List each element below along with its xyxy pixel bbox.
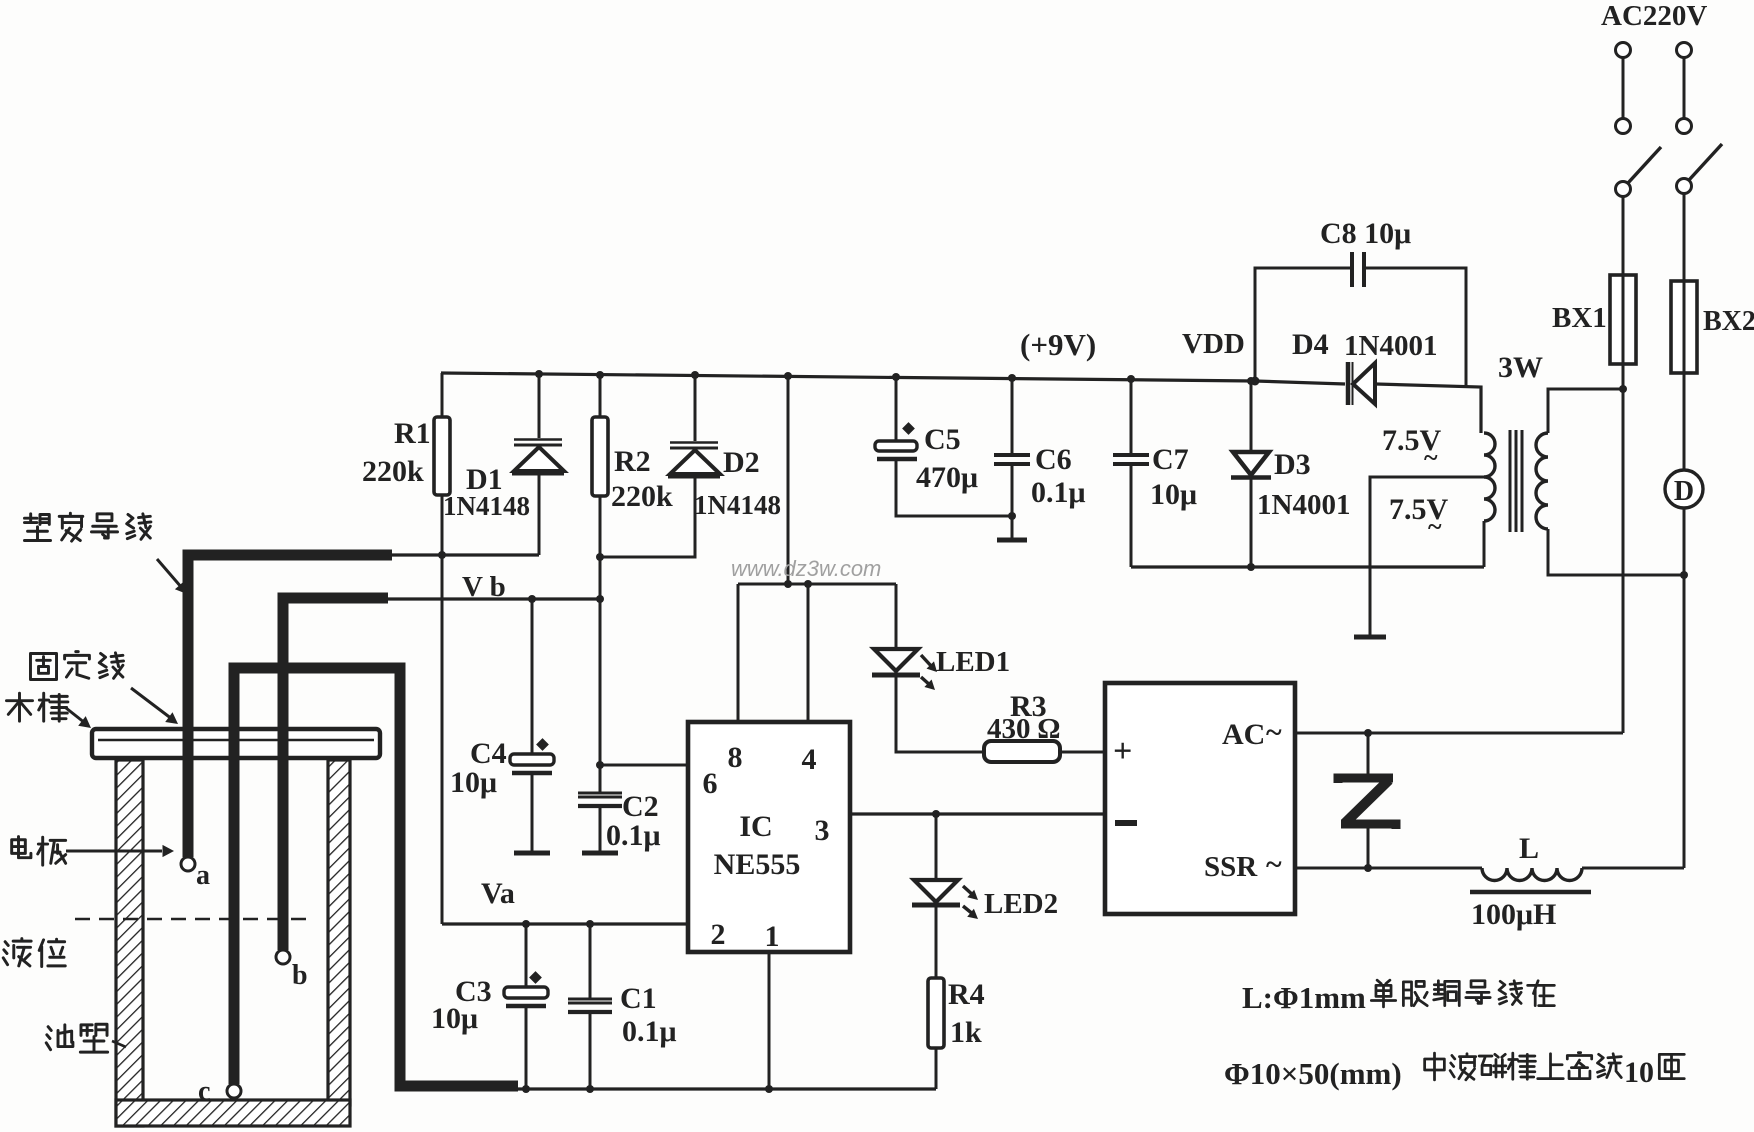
pin 6 label bbox=[703, 767, 718, 800]
node V b label bbox=[462, 571, 506, 603]
svg-text:D: D bbox=[1674, 476, 1694, 507]
svg-text:D3: D3 bbox=[1274, 448, 1311, 481]
wire C8 loop right bbox=[1364, 268, 1466, 386]
svg-text:SSR: SSR bbox=[1204, 851, 1258, 883]
wire secondary centre tap bbox=[1370, 477, 1484, 636]
wire primary bottom rail bbox=[1548, 529, 1688, 579]
note line 1: L spec bbox=[1242, 980, 1554, 1015]
svg-text:1N4001: 1N4001 bbox=[1344, 330, 1437, 362]
svg-text:D4: D4 bbox=[1292, 328, 1329, 361]
label mu-bang (wooden stick) bbox=[6, 693, 91, 728]
wire R2 bottom down to C2 bbox=[599, 496, 602, 793]
label D4 value 1N4001 bbox=[1344, 330, 1437, 362]
wire inductor to motor branch bbox=[1582, 867, 1684, 870]
wire D1 top bbox=[538, 373, 541, 438]
svg-text:3: 3 bbox=[815, 814, 830, 847]
label R2 value 220k bbox=[611, 480, 673, 513]
svg-text:470μ: 470μ bbox=[916, 461, 978, 494]
wire pin 1 to bottom rail bbox=[765, 952, 773, 1093]
label C7 bbox=[1152, 443, 1189, 476]
wire motor down to inductor node bbox=[1683, 508, 1686, 868]
svg-text:IC: IC bbox=[739, 810, 772, 843]
wire primary top bbox=[1548, 385, 1627, 433]
svg-text:4: 4 bbox=[802, 743, 817, 776]
label IC bbox=[739, 810, 772, 843]
watermark bbox=[731, 556, 881, 581]
svg-text:L: L bbox=[1519, 832, 1539, 865]
svg-text:NE555: NE555 bbox=[714, 848, 801, 881]
resistor R2 bbox=[592, 417, 608, 496]
label C2 value 0.1u bbox=[606, 819, 661, 852]
wire C3 bottom bbox=[522, 1006, 530, 1093]
label LED2 bbox=[984, 888, 1058, 920]
svg-text:1N4148: 1N4148 bbox=[443, 491, 530, 521]
label D2 value 1N4148 bbox=[694, 490, 781, 520]
svg-text:(+9V): (+9V) bbox=[1020, 327, 1096, 362]
label D1 bbox=[466, 463, 503, 496]
label BX2 bbox=[1703, 306, 1754, 337]
label D3 value 1N4001 bbox=[1257, 489, 1350, 521]
ground centre tap bbox=[1354, 635, 1386, 640]
water level dashed line bbox=[75, 918, 313, 921]
node Va label bbox=[481, 877, 515, 910]
varistor Z bbox=[1338, 733, 1396, 868]
resistor R4 bbox=[928, 978, 944, 1048]
svg-text:LED1: LED1 bbox=[936, 646, 1010, 678]
wire R3 to SSR plus bbox=[1060, 751, 1105, 754]
wire BX1 down to SSR AC (crosses primary rail) bbox=[1622, 364, 1625, 733]
AC220V left terminal bbox=[1616, 43, 1631, 134]
junction dots supply rail bbox=[784, 580, 812, 588]
capacitor C7 (10u) bbox=[1113, 455, 1149, 464]
tank right wall (hatched) bbox=[328, 760, 350, 1105]
svg-text:1k: 1k bbox=[950, 1016, 982, 1049]
wire LED2 to R4 bbox=[935, 905, 938, 978]
electrode b bbox=[276, 950, 308, 991]
label C3 value 10u bbox=[431, 1002, 478, 1035]
wire electrode c (thick) bbox=[234, 668, 518, 1086]
svg-text:C6: C6 bbox=[1035, 443, 1072, 476]
label C2 bbox=[622, 790, 659, 823]
svg-text:R2: R2 bbox=[614, 445, 651, 478]
wire D3 top bbox=[1250, 381, 1253, 452]
label C6 bbox=[1035, 443, 1072, 476]
node Va rail wire bbox=[442, 920, 688, 928]
wire pin 4 bbox=[807, 584, 810, 722]
svg-text:6: 6 bbox=[703, 767, 718, 800]
svg-text:10: 10 bbox=[1624, 1056, 1654, 1089]
wire C1 bottom bbox=[586, 1012, 594, 1093]
svg-text:+: + bbox=[1113, 733, 1132, 770]
resistor R3 bbox=[984, 741, 1060, 762]
wire +9V feed down to IC supply rail bbox=[787, 376, 790, 584]
wire C6 bottom bbox=[1011, 466, 1014, 540]
svg-text:www.dz3w.com: www.dz3w.com bbox=[731, 556, 881, 581]
wire D3 bottom bbox=[1247, 477, 1255, 571]
wire secondary bottom bbox=[1483, 521, 1486, 567]
label C6 value 0.1u bbox=[1031, 476, 1086, 509]
svg-text:LED2: LED2 bbox=[984, 888, 1058, 920]
motor D bbox=[1665, 470, 1703, 508]
svg-text:~: ~ bbox=[1424, 443, 1438, 472]
pin 3 label bbox=[815, 814, 830, 847]
label D4 bbox=[1292, 328, 1329, 361]
SSR terminal SSR~ bbox=[1204, 848, 1282, 883]
transformer T secondary winding (7.5V+7.5V) bbox=[1484, 433, 1495, 521]
diode D2 (1N4148) bbox=[668, 443, 720, 477]
wire LED1 bottom to R3 bbox=[896, 675, 984, 752]
note line 2: winding spec bbox=[1224, 1053, 1684, 1091]
label R4 value 1k bbox=[950, 1016, 982, 1049]
wire R1 bottom to Va rail bbox=[441, 495, 444, 924]
svg-text:2: 2 bbox=[711, 918, 726, 951]
fuse BX1 bbox=[1610, 275, 1636, 364]
wire pin 6 bbox=[600, 764, 688, 767]
wire electrode b (thick) bbox=[283, 598, 388, 950]
pin 1 label bbox=[765, 920, 780, 953]
wire C2 bottom bbox=[599, 808, 602, 852]
wire R4 bottom to rail bbox=[935, 1048, 938, 1089]
svg-text:VDD: VDD bbox=[1182, 328, 1245, 360]
svg-text:1: 1 bbox=[765, 920, 780, 953]
svg-text:1N4148: 1N4148 bbox=[694, 490, 781, 520]
label R4 bbox=[948, 978, 985, 1011]
wire BX2 to motor bbox=[1683, 373, 1686, 470]
wire C7 top bbox=[1130, 379, 1133, 453]
svg-text:AC: AC bbox=[1222, 718, 1265, 751]
label transformer 3W bbox=[1498, 351, 1543, 384]
wire R2 top bbox=[599, 374, 602, 417]
label R1 bbox=[394, 417, 431, 450]
wire C4 bottom bbox=[531, 773, 534, 852]
ground bar C4 bbox=[514, 851, 550, 856]
svg-text:R4: R4 bbox=[948, 978, 985, 1011]
electrode a bbox=[181, 857, 210, 891]
wire electrode a to D1/R1 node bbox=[386, 551, 539, 559]
electrode c bbox=[198, 1076, 241, 1107]
svg-text:BX1: BX1 bbox=[1552, 302, 1607, 334]
wire rectifier rail (C7/D3/secondary bottom) bbox=[1131, 565, 1484, 568]
+9V bus wire bbox=[441, 373, 1481, 433]
wire switch S1 to fuse BX1 bbox=[1622, 197, 1625, 275]
ground bar C2 bbox=[582, 851, 618, 856]
pin 2 label bbox=[711, 918, 726, 951]
svg-text:430 Ω: 430 Ω bbox=[987, 713, 1060, 745]
tank left wall (hatched) bbox=[116, 760, 143, 1126]
wire LED2 top bbox=[935, 814, 938, 880]
svg-text:C7: C7 bbox=[1152, 443, 1189, 476]
ground bar for C5/C6 bbox=[997, 538, 1027, 543]
capacitor C5 (electrolytic 470u) bbox=[875, 422, 917, 459]
label secondary 7.5V upper bbox=[1382, 424, 1442, 472]
wire D2 top bbox=[694, 374, 697, 441]
svg-text:0.1μ: 0.1μ bbox=[1031, 476, 1086, 509]
svg-text:10μ: 10μ bbox=[431, 1002, 478, 1035]
capacitor C3 (electrolytic 10u) bbox=[504, 971, 548, 1006]
pin 8 label bbox=[728, 741, 743, 774]
op-amp/timer IC NE555 box bbox=[688, 722, 850, 952]
svg-text:c: c bbox=[198, 1076, 210, 1107]
svg-text:L:Φ1mm: L:Φ1mm bbox=[1242, 980, 1366, 1015]
wire pin 3 to SSR minus bbox=[850, 810, 1105, 818]
svg-text:0.1μ: 0.1μ bbox=[622, 1015, 677, 1048]
SSR terminal - bbox=[1115, 820, 1137, 826]
label R3 value 430 ohm bbox=[987, 713, 1060, 745]
svg-text:0.1μ: 0.1μ bbox=[606, 819, 661, 852]
capacitor C4 (electrolytic 10u) bbox=[510, 738, 554, 773]
node (+9V) label bbox=[1020, 327, 1096, 362]
wire SSR AC output bbox=[1295, 729, 1623, 737]
svg-text:100μH: 100μH bbox=[1471, 898, 1556, 931]
label chi-bi (tank wall) bbox=[46, 1024, 126, 1052]
svg-text:220k: 220k bbox=[362, 455, 424, 488]
transformer T primary winding bbox=[1536, 433, 1548, 529]
svg-text:10μ: 10μ bbox=[450, 766, 497, 799]
diode D1 (1N4148) bbox=[512, 440, 564, 474]
label dian-ji (electrode) with arrow bbox=[12, 837, 174, 866]
svg-text:b: b bbox=[292, 960, 308, 991]
label C1 bbox=[620, 982, 657, 1015]
label ye-wei (liquid level) bbox=[3, 939, 65, 967]
svg-text:R1: R1 bbox=[394, 417, 431, 450]
resistor R1 bbox=[434, 417, 450, 495]
wire C3 top bbox=[525, 924, 528, 987]
SSR terminal AC~ bbox=[1222, 716, 1282, 751]
label C4 bbox=[470, 737, 507, 770]
svg-text:10μ: 10μ bbox=[1150, 478, 1197, 511]
svg-text:1N4001: 1N4001 bbox=[1257, 489, 1350, 521]
node AC220V label bbox=[1601, 0, 1707, 32]
label C1 value 0.1u bbox=[622, 1015, 677, 1048]
svg-text:Φ10×50(mm): Φ10×50(mm) bbox=[1224, 1056, 1402, 1091]
label BX1 bbox=[1552, 302, 1607, 334]
label C5 value 470u bbox=[916, 461, 978, 494]
svg-text:Va: Va bbox=[481, 877, 515, 910]
wire C5 top bbox=[895, 377, 898, 441]
label D2 bbox=[723, 446, 760, 479]
inductor L (100uH) bbox=[1482, 868, 1582, 880]
capacitor C1 (0.1u) bbox=[568, 999, 612, 1012]
junction dots on bus bbox=[535, 370, 1260, 386]
svg-text:~: ~ bbox=[1266, 716, 1282, 749]
svg-text:C5: C5 bbox=[924, 423, 961, 456]
label D1 value 1N4148 bbox=[443, 491, 530, 521]
wire C1 top bbox=[589, 924, 592, 999]
wire LED1 top bbox=[895, 584, 898, 649]
relay block SSR bbox=[1105, 683, 1295, 914]
label R1 value 220k bbox=[362, 455, 424, 488]
LED LED1 bbox=[872, 649, 937, 690]
svg-text:220k: 220k bbox=[611, 480, 673, 513]
pin 4 label bbox=[802, 743, 817, 776]
transformer T core bbox=[1510, 430, 1522, 532]
label L value 100uH with overline bbox=[1470, 892, 1591, 931]
wooden stick lid bbox=[92, 729, 380, 758]
wire SSR~ output to inductor bbox=[1295, 864, 1482, 872]
wire IC supply rail (pins 8,4 and LED1) bbox=[738, 583, 896, 586]
wire bottom rail (thin) bbox=[516, 1087, 936, 1090]
svg-text:C1: C1 bbox=[620, 982, 657, 1015]
wire switch S2 to fuse BX2 bbox=[1683, 194, 1686, 281]
wire C4 top bbox=[531, 599, 534, 754]
label LED1 bbox=[936, 646, 1010, 678]
wire R1 top bbox=[441, 373, 444, 417]
SSR terminal + bbox=[1113, 733, 1132, 770]
label R2 bbox=[614, 445, 651, 478]
svg-text:C8 10μ: C8 10μ bbox=[1320, 217, 1411, 250]
label C7 value 10u bbox=[1150, 478, 1197, 511]
label D3 bbox=[1274, 448, 1311, 481]
wire D1 bottom bbox=[538, 473, 541, 555]
diode D3 (1N4001) bbox=[1231, 452, 1271, 478]
switch S1 bbox=[1616, 147, 1662, 197]
wire electrode a (thick) bbox=[188, 555, 392, 857]
AC220V right terminal bbox=[1677, 43, 1692, 134]
svg-text:~: ~ bbox=[1266, 848, 1282, 881]
capacitor C8 (10u) bbox=[1352, 252, 1364, 287]
svg-text:AC220V: AC220V bbox=[1601, 0, 1707, 32]
svg-text:8: 8 bbox=[728, 741, 743, 774]
svg-text:D2: D2 bbox=[723, 446, 760, 479]
LED LED2 bbox=[912, 880, 978, 919]
wire C8 loop left bbox=[1255, 268, 1352, 381]
label C4 value 10u bbox=[450, 766, 497, 799]
tank bottom (hatched) bbox=[116, 1100, 350, 1126]
label NE555 bbox=[714, 848, 801, 881]
junction dots on R2 line bbox=[596, 553, 604, 769]
svg-text:~: ~ bbox=[1428, 512, 1442, 541]
wire D2 bottom and link to R2 line bbox=[600, 476, 695, 557]
label C3 bbox=[455, 975, 492, 1008]
svg-text:BX2: BX2 bbox=[1703, 306, 1754, 337]
capacitor C2 (0.1u) bbox=[578, 793, 622, 806]
wire C6 top bbox=[1011, 378, 1014, 453]
label secondary 7.5V lower bbox=[1389, 493, 1449, 541]
node Vb wire (thin part) bbox=[383, 595, 600, 603]
label gu-ding-xian (fixing wire) bbox=[30, 652, 178, 724]
svg-text:a: a bbox=[196, 860, 210, 891]
wire C7 bottom to rectifier rail bbox=[1130, 466, 1133, 567]
node VDD label bbox=[1182, 328, 1245, 360]
diode D4 (1N4001) bbox=[1348, 362, 1375, 405]
label R3 bbox=[1010, 690, 1047, 723]
label su-pi-dao-xian (plastic wire) bbox=[24, 513, 187, 594]
switch S2 bbox=[1677, 144, 1723, 194]
label L bbox=[1519, 832, 1539, 865]
label C5 bbox=[924, 423, 961, 456]
svg-text:V b: V b bbox=[462, 571, 506, 603]
svg-text:3W: 3W bbox=[1498, 351, 1543, 384]
capacitor C6 (0.1u) bbox=[994, 455, 1030, 464]
fuse BX2 bbox=[1671, 281, 1697, 373]
label C8 value bbox=[1320, 217, 1411, 250]
wire pin 8 bbox=[737, 584, 740, 722]
wire C5 bottom to C6 bbox=[896, 459, 1016, 520]
